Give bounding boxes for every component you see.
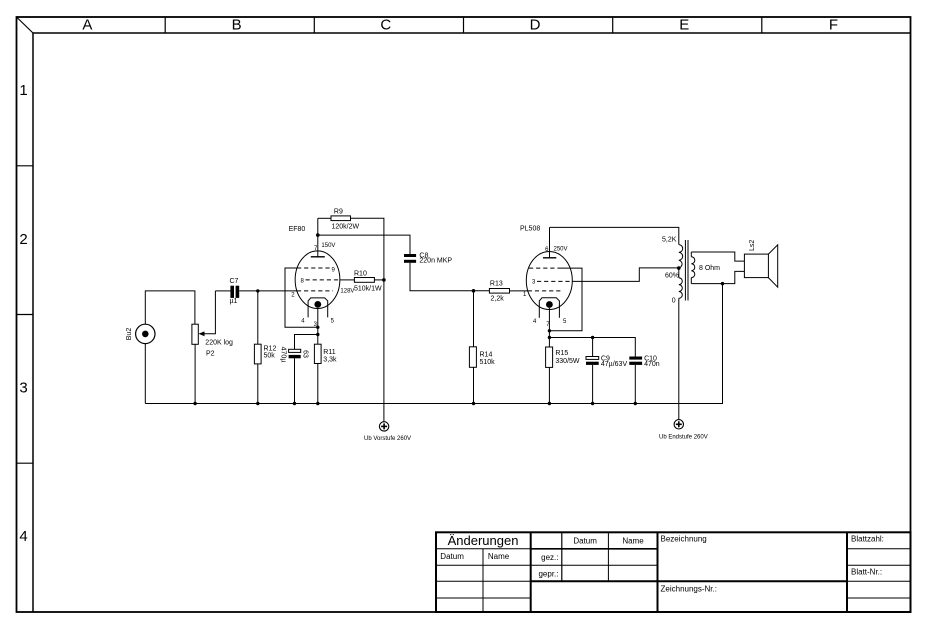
svg-text:Blattzahl:: Blattzahl: bbox=[851, 535, 884, 544]
svg-text:3,3k: 3,3k bbox=[323, 356, 337, 363]
junction R11 / rail bbox=[316, 402, 319, 405]
svg-text:3: 3 bbox=[19, 380, 27, 397]
junction cathode / g3 bbox=[316, 326, 319, 329]
transformer Tr1 primary winding 5,2K bbox=[662, 237, 683, 305]
electrolytic capacitor 470µ/63 bbox=[280, 347, 309, 363]
svg-text:Name: Name bbox=[488, 552, 510, 561]
svg-text:B: B bbox=[232, 17, 242, 34]
junction 60% tap bbox=[677, 266, 681, 270]
wire C7 to EF80 grid g1 bbox=[239, 290, 297, 292]
svg-text:Bezeichnung: Bezeichnung bbox=[661, 535, 707, 544]
wire R11 bottom to ground rail bbox=[317, 364, 319, 404]
connector Bu2 bbox=[126, 324, 155, 343]
svg-text:E: E bbox=[679, 17, 689, 34]
speaker Ls2 bbox=[744, 240, 777, 288]
svg-text:1: 1 bbox=[19, 82, 27, 99]
wire junction to C9 bbox=[592, 338, 594, 357]
junction cathode / g3 bbox=[548, 329, 551, 332]
svg-text:4: 4 bbox=[19, 528, 27, 545]
junction cap 470µ / rail bbox=[293, 402, 296, 405]
wire PL508 g2 to 60% tap bbox=[572, 268, 679, 282]
svg-text:60%: 60% bbox=[665, 273, 679, 280]
resistor R10 bbox=[340, 270, 382, 294]
svg-text:µ1: µ1 bbox=[230, 298, 238, 305]
power symbol Ub Vorstufe 260V bbox=[364, 422, 411, 442]
ground rail wire bbox=[145, 284, 722, 404]
junction R12 / rail bbox=[256, 402, 259, 405]
junction C10 / rail bbox=[634, 402, 637, 405]
wire node to R14 bbox=[473, 291, 475, 347]
junction R12 top bbox=[256, 289, 259, 292]
svg-text:EF80: EF80 bbox=[289, 226, 306, 233]
svg-text:330/5W: 330/5W bbox=[555, 358, 580, 365]
wire R13 to PL508 grid g1 bbox=[510, 290, 529, 292]
tube PL508 (U2) bbox=[520, 225, 572, 347]
svg-text:PL508: PL508 bbox=[520, 225, 540, 232]
svg-text:A: A bbox=[82, 17, 92, 34]
svg-text:63: 63 bbox=[301, 350, 308, 358]
svg-text:Zeichnungs-Nr.:: Zeichnungs-Nr.: bbox=[661, 585, 717, 594]
wire Bu2 top to P2 top bbox=[145, 291, 195, 324]
junction P2 / rail bbox=[193, 402, 196, 405]
svg-text:Ub Endstufe 260V: Ub Endstufe 260V bbox=[659, 435, 708, 441]
svg-text:220n MKP: 220n MKP bbox=[419, 258, 452, 265]
svg-text:Datum: Datum bbox=[573, 537, 597, 546]
wire PL508 g3 to cathode bbox=[549, 268, 582, 331]
junction secondary ground bbox=[721, 282, 724, 285]
junction C9 top bbox=[591, 336, 594, 339]
svg-text:R12: R12 bbox=[264, 345, 277, 352]
capacitor C8 bbox=[404, 252, 452, 264]
wire anode node to C8 bbox=[318, 235, 410, 254]
wire cathode branch to electrolytic cap bbox=[295, 335, 318, 350]
svg-text:R13: R13 bbox=[490, 281, 503, 288]
resistor R14 bbox=[469, 347, 495, 368]
wire EF80 g3 (pin 9) to cathode bbox=[285, 268, 318, 327]
svg-text:8 Ohm: 8 Ohm bbox=[699, 265, 720, 272]
tube EF80 (U1) bbox=[289, 218, 340, 344]
wire secondary bottom to speaker bbox=[691, 271, 744, 283]
svg-text:gepr.:: gepr.: bbox=[538, 570, 558, 579]
transformer secondary winding 8 Ohm bbox=[691, 252, 720, 284]
resistor R13 bbox=[489, 281, 509, 303]
wire C10 bottom to ground rail bbox=[634, 365, 636, 404]
svg-text:470n: 470n bbox=[644, 361, 660, 368]
capacitor C10 bbox=[629, 355, 659, 368]
svg-text:510k/1W: 510k/1W bbox=[354, 285, 382, 292]
junction R13 / R14 node bbox=[472, 289, 476, 293]
svg-text:2,2k: 2,2k bbox=[491, 296, 505, 303]
svg-text:gez.:: gez.: bbox=[541, 553, 558, 562]
wire C9 bottom to ground rail bbox=[592, 365, 594, 404]
electrolytic capacitor C9 bbox=[586, 355, 627, 368]
svg-text:R14: R14 bbox=[480, 351, 493, 358]
wire Bu2 bottom to ground rail bbox=[144, 344, 146, 404]
wire P2 wiper to C7 bbox=[215, 290, 230, 292]
junction R15 / rail bbox=[548, 402, 551, 405]
svg-text:R10: R10 bbox=[354, 270, 367, 277]
wire R12 bottom to ground rail bbox=[257, 364, 259, 404]
svg-text:Ls2: Ls2 bbox=[749, 240, 756, 251]
capacitor C7 bbox=[230, 278, 240, 305]
wire EF80 g2 to R10 bbox=[340, 279, 355, 281]
junction C9 / rail bbox=[591, 402, 594, 405]
svg-text:Blatt-Nr.:: Blatt-Nr.: bbox=[851, 568, 882, 577]
resistor R12 bbox=[254, 344, 276, 364]
resistor R15 bbox=[546, 347, 580, 367]
svg-text:47µ/63V: 47µ/63V bbox=[601, 361, 628, 368]
wire PL508 anode to transformer primary bbox=[550, 227, 679, 244]
wire P2 bottom to ground rail bbox=[194, 344, 196, 403]
wire R15 bottom to ground rail bbox=[548, 367, 550, 403]
svg-text:D: D bbox=[530, 17, 541, 34]
svg-text:120k/2W: 120k/2W bbox=[332, 223, 360, 230]
resistor R11 bbox=[314, 344, 337, 363]
wire cap bottom to ground rail bbox=[294, 358, 296, 403]
svg-text:C: C bbox=[380, 17, 391, 34]
svg-text:150V: 150V bbox=[321, 243, 335, 249]
svg-text:P2: P2 bbox=[206, 351, 215, 358]
svg-text:0: 0 bbox=[672, 297, 676, 304]
svg-text:R11: R11 bbox=[323, 349, 335, 356]
wire C8 bottom to R13 bbox=[410, 263, 489, 291]
svg-text:Änderungen: Änderungen bbox=[448, 533, 519, 548]
svg-text:220K log: 220K log bbox=[205, 340, 233, 347]
svg-text:Name: Name bbox=[622, 537, 644, 546]
svg-text:510k: 510k bbox=[480, 359, 496, 366]
wire junction to R12 bbox=[257, 291, 259, 344]
junction R14 / rail bbox=[472, 402, 475, 405]
wire R10 right to supply rail bbox=[374, 279, 384, 281]
title block bbox=[436, 532, 911, 612]
wire R9 right to supply rail bbox=[351, 218, 384, 421]
svg-text:250V: 250V bbox=[554, 247, 568, 253]
wire secondary top to speaker bbox=[691, 252, 744, 261]
wire R14 bottom to ground rail bbox=[473, 367, 475, 403]
potentiometer P2 bbox=[192, 291, 233, 358]
svg-text:128V: 128V bbox=[340, 289, 354, 295]
wire cathode branch to C9 and C10 bbox=[549, 338, 635, 357]
wire primary 0 end to supply bbox=[678, 298, 680, 419]
svg-text:Bu2: Bu2 bbox=[126, 328, 133, 341]
junction cathode / C6 branch bbox=[316, 333, 319, 336]
svg-text:Ub Vorstufe 260V: Ub Vorstufe 260V bbox=[364, 436, 411, 442]
svg-text:5,2K: 5,2K bbox=[662, 237, 677, 244]
svg-text:2: 2 bbox=[19, 231, 27, 248]
svg-text:R9: R9 bbox=[334, 209, 343, 216]
wire anode to R9 left bbox=[318, 217, 331, 219]
svg-text:470µ: 470µ bbox=[280, 347, 287, 363]
svg-text:Datum: Datum bbox=[440, 552, 464, 561]
svg-text:R15: R15 bbox=[555, 350, 568, 357]
svg-text:F: F bbox=[829, 17, 838, 34]
junction R10 / supply rail bbox=[382, 278, 386, 282]
resistor R9 bbox=[331, 209, 360, 231]
transformer core bbox=[685, 240, 688, 301]
junction EF80 anode node bbox=[316, 233, 320, 237]
svg-text:50k: 50k bbox=[264, 353, 276, 360]
junction cathode / bypass branch bbox=[548, 336, 551, 339]
svg-text:C7: C7 bbox=[230, 278, 239, 285]
power symbol Ub Endstufe 260V bbox=[659, 420, 708, 441]
